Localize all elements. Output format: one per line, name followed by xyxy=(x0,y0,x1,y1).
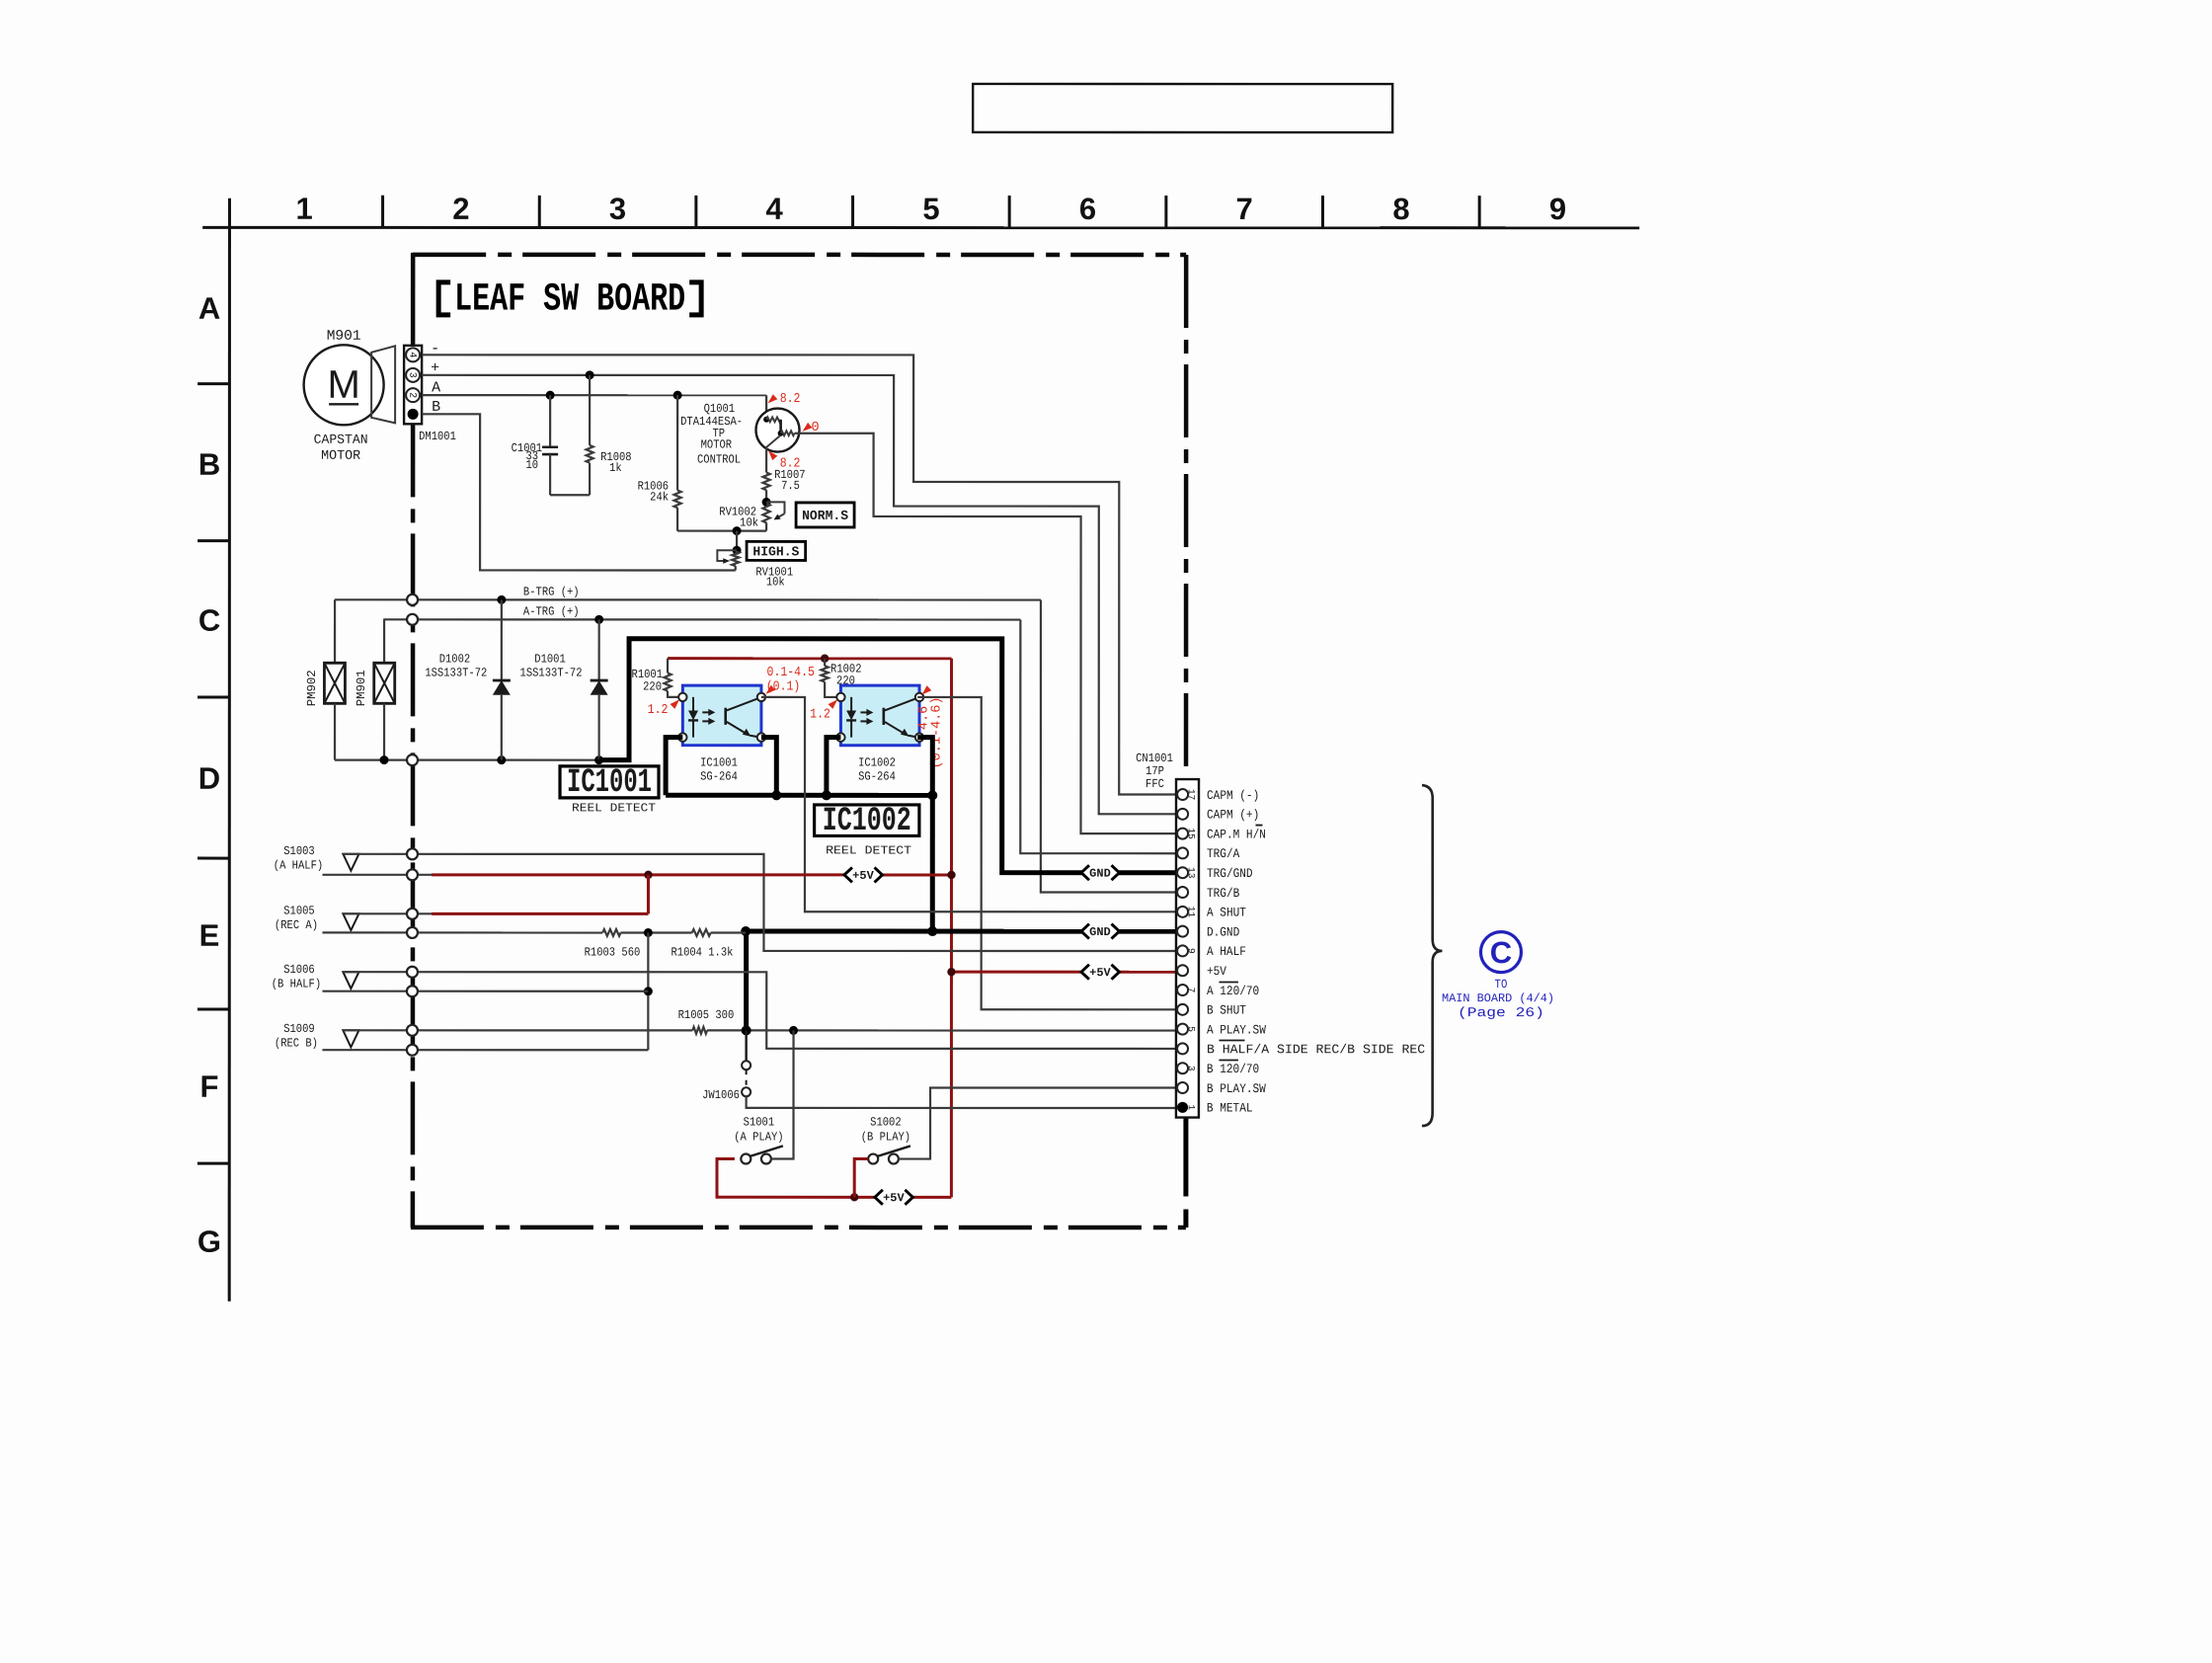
svg-text:13: 13 xyxy=(1186,867,1197,879)
svg-text:R1004 1.3k: R1004 1.3k xyxy=(671,945,733,959)
photo interrupter PM902 xyxy=(334,599,336,663)
svg-text:CONTROL: CONTROL xyxy=(697,452,741,466)
wire +5V red S1003 S1005 branch xyxy=(432,873,844,876)
resistor R1006 24k xyxy=(676,395,678,490)
flag +5V on pin8 wire xyxy=(1083,963,1118,981)
svg-text:7: 7 xyxy=(1236,192,1253,226)
svg-text:A SHUT: A SHUT xyxy=(1207,906,1246,920)
node junction S1001 branch xyxy=(789,1026,798,1035)
board outline bottom edge xyxy=(411,1226,1186,1230)
svg-text:GND: GND xyxy=(1089,925,1111,939)
svg-text:7.5: 7.5 xyxy=(781,479,800,493)
connector CN1001 pin 10 D.GND xyxy=(1177,926,1188,937)
jumper JW1006 xyxy=(745,1030,747,1061)
svg-text:+5V: +5V xyxy=(1089,966,1111,980)
svg-text:G: G xyxy=(197,1225,221,1259)
wire CAPM(-) from DM1001 pin4 to CN1001 pin17 xyxy=(422,355,1176,794)
node B-TRG border crossing xyxy=(407,594,418,605)
wire S1006 upper to CN1001 pin4 B HALF xyxy=(343,972,1176,1049)
wire A-TRG(+) rail to CN1001 pin14 TRG/A xyxy=(383,618,1020,620)
wire Q1001 emitter to CN1001 pin15 CAP.M xyxy=(794,434,1176,833)
wire bottom rail of reel sensors xyxy=(335,758,599,760)
flag +5V bottom xyxy=(877,1188,911,1206)
svg-text:E: E xyxy=(199,918,220,953)
wire S1009 lower xyxy=(322,1049,648,1051)
node junction RV1001 branch xyxy=(733,526,742,535)
svg-text:B PLAY.SW: B PLAY.SW xyxy=(1207,1081,1266,1096)
connector CN1001 pin 11 A SHUT xyxy=(1177,907,1188,917)
connector CN1001 pin 5 A PLAY.SW xyxy=(1177,1024,1188,1035)
wire D.GND thick to CN1001 pin10 xyxy=(746,929,1176,934)
connector DM1001 pin 4 xyxy=(406,348,420,361)
border frame ruler left xyxy=(228,198,231,1302)
diode D1002 1SS133T-72 xyxy=(501,599,503,680)
wire B-TRG(+) rail to CN1001 pin12 TRG/B xyxy=(335,598,1041,600)
connector CN1001 pin 6 B SHUT xyxy=(1177,1004,1188,1015)
svg-text:(REC B): (REC B) xyxy=(275,1036,318,1050)
svg-text:A-TRG (+): A-TRG (+) xyxy=(523,604,580,618)
wire S1005 lower to R1003 xyxy=(322,931,602,933)
wire B phase from DM1001 pin1 to RV1001 xyxy=(422,414,736,570)
svg-text:4: 4 xyxy=(766,192,784,226)
trimmer RV1002 10k xyxy=(762,504,769,522)
svg-text:Q1001: Q1001 xyxy=(704,402,735,416)
svg-text:1: 1 xyxy=(296,192,313,226)
svg-text:CN1001: CN1001 xyxy=(1136,752,1173,765)
connector reference C to main board xyxy=(1480,932,1521,973)
flag GND on D.GND xyxy=(1083,922,1118,940)
board outline left edge dash-dot xyxy=(411,424,416,1227)
svg-text:D.GND: D.GND xyxy=(1207,924,1239,939)
svg-text:1.2: 1.2 xyxy=(648,703,669,718)
svg-text:B METAL: B METAL xyxy=(1207,1101,1253,1116)
wire rail to D.GND thick xyxy=(930,795,935,931)
node junction R1006 top xyxy=(673,391,682,400)
motor housing flange xyxy=(371,346,395,423)
title block empty box xyxy=(973,84,1392,132)
svg-text:(A PLAY): (A PLAY) xyxy=(734,1130,783,1144)
trimmer RV1001 10k xyxy=(736,531,738,551)
svg-text:2: 2 xyxy=(406,392,417,398)
node switch contact border crossing xyxy=(407,927,418,938)
resistor R1007 7.5 xyxy=(765,450,767,473)
node switch contact border crossing xyxy=(407,967,418,978)
node switch contact border crossing xyxy=(407,986,418,996)
wire opto ground rail thick xyxy=(666,793,932,798)
connector CN1001 pin 17 CAPM (-) xyxy=(1177,789,1188,800)
connector CN1001 pin 15 CAP.M H/N xyxy=(1177,829,1188,839)
board outline right edge lower solid xyxy=(1183,1118,1188,1197)
node junction D1001 bottom xyxy=(594,755,603,764)
wire IC1001 emitter leg thick xyxy=(761,738,776,796)
svg-text:FFC: FFC xyxy=(1145,777,1164,791)
node junction +5V trunk mid xyxy=(947,871,955,879)
wire D.GND drop to R1005 thick xyxy=(744,931,749,1030)
svg-text:GND: GND xyxy=(1089,867,1111,881)
wire S1006 lower xyxy=(322,990,648,992)
node switch contact border crossing xyxy=(407,869,418,880)
node junction R1008 top xyxy=(586,370,594,379)
connector DM1001 pin 1 xyxy=(408,409,419,420)
wire IC1001 collector to CN1001 pin11 A SHUT xyxy=(761,697,1176,911)
svg-text:TO: TO xyxy=(1495,978,1508,991)
svg-text:(Page 26): (Page 26) xyxy=(1458,1006,1544,1021)
svg-text:1.2: 1.2 xyxy=(810,707,830,722)
svg-text:9: 9 xyxy=(1186,948,1197,954)
svg-text:SG-264: SG-264 xyxy=(858,769,896,783)
connector CN1001 pin 2 B PLAY.SW xyxy=(1177,1082,1188,1093)
svg-text:A 120/70: A 120/70 xyxy=(1207,984,1259,998)
connector DM1001 pin 3 xyxy=(406,368,420,382)
node junction D.GND rail drop xyxy=(927,926,937,936)
svg-text:IC1001: IC1001 xyxy=(567,764,652,802)
wire JW1006 to CN1001 pin1 B METAL xyxy=(747,1096,1176,1108)
wire +5V red top rail xyxy=(668,657,952,660)
node junction S1002 +5V xyxy=(850,1193,858,1201)
svg-text:A PLAY.SW: A PLAY.SW xyxy=(1207,1022,1266,1037)
svg-text:B SHUT: B SHUT xyxy=(1207,1003,1246,1018)
svg-text:TRG/A: TRG/A xyxy=(1207,846,1239,861)
connector DM1001 body xyxy=(404,346,422,425)
svg-text:CAPM (-): CAPM (-) xyxy=(1207,788,1259,803)
overline CAP.M H/N xyxy=(1256,825,1263,827)
wire A phase from DM1001 pin2 to Q1001 base xyxy=(422,394,766,396)
connector DM1001 pin 2 xyxy=(406,388,420,402)
svg-text:24k: 24k xyxy=(650,490,669,504)
wire S1009 upper through R1005 to CN1001 pin5 A PLAY.SW xyxy=(343,1029,692,1031)
svg-text:1SS133T-72: 1SS133T-72 xyxy=(425,666,487,679)
svg-text:CAP.M H/N: CAP.M H/N xyxy=(1207,827,1266,841)
svg-text:IC1002: IC1002 xyxy=(823,803,911,840)
svg-text:MOTOR: MOTOR xyxy=(321,449,360,464)
wire +5V red vertical trunk xyxy=(950,659,953,1198)
svg-text:3: 3 xyxy=(609,192,626,226)
wire CAPM(+) from DM1001 pin3 to CN1001 pin16 xyxy=(422,375,1176,815)
svg-text:7: 7 xyxy=(1186,988,1197,993)
transistor Q1001 DTA144ESA-TP motor control xyxy=(756,409,800,452)
motor M901 capstan motor xyxy=(304,345,384,425)
svg-text:DM1001: DM1001 xyxy=(419,430,456,443)
svg-text:SG-264: SG-264 xyxy=(700,769,738,783)
svg-text:+5V: +5V xyxy=(1207,964,1226,979)
svg-text:220: 220 xyxy=(643,679,662,693)
svg-text:8.2: 8.2 xyxy=(780,392,801,407)
svg-text:D: D xyxy=(198,761,220,796)
svg-text:R1003 560: R1003 560 xyxy=(585,945,641,959)
svg-text:17P: 17P xyxy=(1145,764,1164,778)
svg-text:S1003: S1003 xyxy=(283,844,314,858)
connector CN1001 pin 7 A 120/70 xyxy=(1177,985,1188,995)
node switch contact border crossing xyxy=(407,1045,418,1056)
svg-text:10: 10 xyxy=(526,458,539,472)
svg-text:B 120/70: B 120/70 xyxy=(1207,1062,1259,1076)
wire S1001 right contact to A PLAY.SW line xyxy=(771,1030,794,1158)
svg-text:S1009: S1009 xyxy=(283,1022,314,1036)
svg-text:C: C xyxy=(1490,935,1512,970)
svg-text:TRG/B: TRG/B xyxy=(1207,886,1239,901)
svg-text:5: 5 xyxy=(922,192,939,226)
svg-text:JW1006: JW1006 xyxy=(702,1088,740,1102)
wire S1003 upper to CN1001 pin9 A HALF xyxy=(343,854,1176,951)
svg-text:+5V: +5V xyxy=(852,869,874,883)
svg-text:2: 2 xyxy=(452,192,469,226)
resistor R1008 1k xyxy=(589,375,591,445)
svg-text:S1001: S1001 xyxy=(744,1115,774,1129)
resistor R1003 560 xyxy=(602,929,620,936)
resistor R1004 1.3k xyxy=(692,929,711,936)
optocoupler IC1002 SG-264 xyxy=(840,685,919,746)
svg-text:+5V: +5V xyxy=(883,1191,905,1205)
capacitor C1001 xyxy=(549,395,551,447)
connector CN1001 pin 1 B METAL xyxy=(1177,1102,1188,1113)
svg-text:3: 3 xyxy=(406,372,417,378)
svg-text:CAPM (+): CAPM (+) xyxy=(1207,808,1259,823)
wire R1006 bottom to RV1002 bottom xyxy=(677,529,766,531)
svg-text:CAPSTAN: CAPSTAN xyxy=(314,434,368,448)
wire S1005 upper stub xyxy=(343,912,432,914)
resistor R1001 220 xyxy=(667,659,669,673)
wire sense divider vertical xyxy=(647,932,649,1050)
node junction D1001 top xyxy=(594,615,603,624)
wire IC1001 cathode leg thick xyxy=(666,738,682,796)
photo interrupter PM901 xyxy=(383,619,385,663)
wire IC1002 emitter leg thick xyxy=(917,738,932,796)
node junction rail IC1002 cathode xyxy=(822,790,831,800)
svg-text:HIGH.S: HIGH.S xyxy=(752,545,799,560)
svg-text:PM902: PM902 xyxy=(305,670,319,706)
wire S1003 lower stub xyxy=(322,874,432,876)
svg-text:REEL DETECT: REEL DETECT xyxy=(826,843,911,857)
node junction S1006 lower xyxy=(644,987,653,995)
resistor R1005 300 xyxy=(692,1027,707,1034)
connector CN1001 pin 9 A HALF xyxy=(1177,945,1188,956)
svg-text:9: 9 xyxy=(1549,192,1566,226)
node junction R1002 top red xyxy=(821,655,829,663)
connector CN1001 pin 13 TRG/GND xyxy=(1177,867,1188,878)
title LEAF SW BOARD xyxy=(438,282,450,315)
flag GND on TRG/GND xyxy=(1083,864,1118,882)
svg-text:R1005 300: R1005 300 xyxy=(678,1008,735,1022)
svg-text:(B HALF): (B HALF) xyxy=(272,977,321,990)
svg-text:1k: 1k xyxy=(609,461,622,475)
svg-text:MAIN BOARD (4/4): MAIN BOARD (4/4) xyxy=(1442,991,1554,1005)
flag +5V on S1003 branch xyxy=(846,866,881,884)
svg-text:S1006: S1006 xyxy=(283,963,314,977)
svg-text:REEL DETECT: REEL DETECT xyxy=(572,801,656,815)
wire S1002 right contact to CN1001 pin2 B PLAY.SW xyxy=(899,1087,1176,1158)
svg-text:B: B xyxy=(198,447,220,482)
svg-text:B-TRG (+): B-TRG (+) xyxy=(523,585,580,598)
connector CN1001 pin 12 TRG/B xyxy=(1177,887,1188,898)
svg-text:C: C xyxy=(198,603,220,638)
svg-text:IC1002: IC1002 xyxy=(858,755,896,769)
node junction rail IC1001 emitter xyxy=(771,790,781,800)
label NORM.S box xyxy=(796,503,854,527)
connector CN1001 pin 4 B HALF/A SIDE REC/B SIDE REC xyxy=(1177,1043,1188,1054)
svg-text:10k: 10k xyxy=(766,576,785,590)
board outline right edge xyxy=(1184,255,1189,779)
overline A 120 xyxy=(1219,982,1238,984)
svg-text:B HALF/A SIDE REC/B SIDE REC: B HALF/A SIDE REC/B SIDE REC xyxy=(1207,1042,1425,1057)
svg-text:A HALF: A HALF xyxy=(1207,944,1246,959)
svg-text:LEAF SW BOARD: LEAF SW BOARD xyxy=(454,277,685,322)
resistor R1002 220 xyxy=(824,659,826,667)
svg-text:11: 11 xyxy=(1186,907,1197,918)
node switch contact border crossing xyxy=(407,848,418,859)
svg-text:(B PLAY): (B PLAY) xyxy=(861,1130,910,1144)
svg-text:(A HALF): (A HALF) xyxy=(274,858,323,872)
svg-text:3: 3 xyxy=(1186,1066,1197,1071)
board outline left edge upper solid xyxy=(411,253,416,347)
label HIGH.S box xyxy=(747,541,806,560)
node junction C1001 top xyxy=(546,391,555,400)
svg-text:D1001: D1001 xyxy=(534,652,565,666)
diode D1001 1SS133T-72 xyxy=(598,619,600,680)
connector CN1001 pin 14 TRG/A xyxy=(1177,847,1188,858)
wire +5V to S1002 left contact xyxy=(854,1159,868,1198)
svg-text:(REC A): (REC A) xyxy=(275,918,318,932)
overline B 120 xyxy=(1219,1060,1238,1062)
svg-text:M: M xyxy=(327,363,359,407)
wire IC1002 collector to CN1001 pin6 B SHUT xyxy=(917,697,1176,1009)
node junction rail corner xyxy=(927,790,937,800)
border frame ruler top xyxy=(202,226,1639,229)
svg-text:MOTOR: MOTOR xyxy=(701,437,733,451)
svg-text:17: 17 xyxy=(1186,789,1197,800)
optocoupler IC1001 SG-264 xyxy=(682,685,761,746)
wire +5V red bottom to play switches xyxy=(717,1158,875,1197)
node junction D.GND left end xyxy=(741,926,750,936)
wire TRG/GND thick to CN1001 pin13 xyxy=(599,639,1176,873)
overline B HALF xyxy=(1219,1040,1244,1042)
svg-text:S1005: S1005 xyxy=(283,904,314,917)
svg-text:IC1001: IC1001 xyxy=(700,755,738,769)
svg-text:6: 6 xyxy=(1079,192,1096,226)
brace to main board xyxy=(1422,785,1443,1126)
node sensor rail border crossing xyxy=(407,754,418,765)
connector CN1001 pin 16 CAPM (+) xyxy=(1177,809,1188,820)
svg-text:0.1-4.5: 0.1-4.5 xyxy=(767,666,815,680)
designator box IC1001 xyxy=(560,766,659,798)
svg-text:NORM.S: NORM.S xyxy=(802,510,848,524)
svg-text:TRG/GND: TRG/GND xyxy=(1207,866,1253,881)
node A-TRG border crossing xyxy=(407,614,418,625)
node junction D1002 bottom xyxy=(497,755,506,764)
node junction R1007 RV1002 xyxy=(762,498,771,507)
svg-text:M901: M901 xyxy=(327,329,361,345)
node junction R1005 right xyxy=(742,1025,751,1035)
board outline LEAF SW BOARD top edge xyxy=(413,253,1186,258)
svg-text:1SS133T-72: 1SS133T-72 xyxy=(520,666,583,679)
svg-text:A: A xyxy=(198,291,220,326)
svg-text:8: 8 xyxy=(1392,192,1409,226)
connector CN1001 pin 8 +5V xyxy=(1177,965,1188,976)
svg-text:S1002: S1002 xyxy=(870,1115,901,1129)
svg-text:10k: 10k xyxy=(740,515,758,529)
node switch contact border crossing xyxy=(407,1025,418,1036)
svg-text:A: A xyxy=(432,379,440,396)
svg-text:D1002: D1002 xyxy=(439,652,470,666)
node junction D1002 top xyxy=(497,595,506,604)
node switch contact border crossing xyxy=(407,909,418,919)
svg-text:PM901: PM901 xyxy=(355,670,368,706)
svg-text:4: 4 xyxy=(406,352,417,357)
node junction R1003 R1004 xyxy=(621,931,692,933)
svg-text:F: F xyxy=(199,1069,218,1104)
wire +5V red to CN1001 pin8 xyxy=(951,971,1176,974)
svg-text:5: 5 xyxy=(1186,1026,1197,1032)
designator box IC1002 xyxy=(815,805,919,836)
wire IC1002 cathode leg thick xyxy=(827,738,841,796)
svg-text:1: 1 xyxy=(1186,1104,1197,1110)
node junction PM901 bottom xyxy=(380,755,389,764)
connector CN1001 pin 3 B 120/70 xyxy=(1177,1063,1188,1073)
svg-text:15: 15 xyxy=(1186,828,1197,839)
